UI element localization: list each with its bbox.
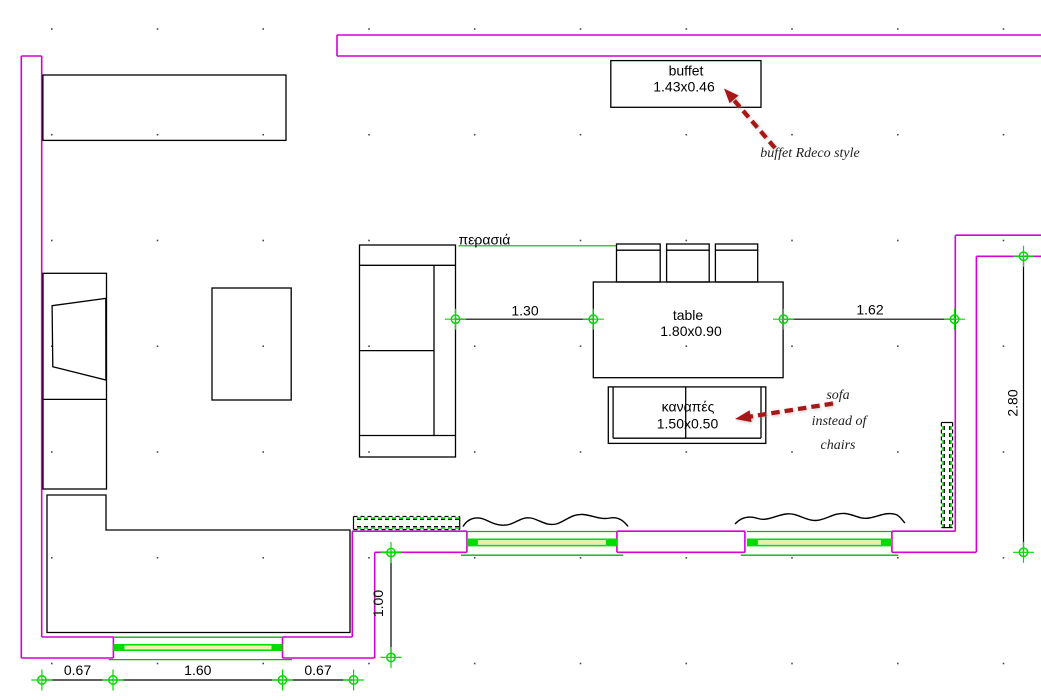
svg-text:1.62: 1.62 <box>856 302 883 318</box>
svg-text:1.30: 1.30 <box>511 303 538 319</box>
svg-text:buffet Rdeco style: buffet Rdeco style <box>760 146 860 161</box>
svg-text:1.00: 1.00 <box>370 590 386 617</box>
svg-text:περασιά: περασιά <box>459 232 511 248</box>
svg-text:0.67: 0.67 <box>64 662 91 678</box>
svg-text:table: table <box>673 307 704 323</box>
svg-text:2.80: 2.80 <box>1005 389 1021 416</box>
svg-text:1.43x0.46: 1.43x0.46 <box>653 79 715 95</box>
svg-text:1.50x0.50: 1.50x0.50 <box>657 416 719 432</box>
svg-text:0.67: 0.67 <box>304 662 331 678</box>
svg-text:1.60: 1.60 <box>184 662 211 678</box>
svg-text:1.80x0.90: 1.80x0.90 <box>660 323 722 339</box>
svg-text:chairs: chairs <box>821 438 857 453</box>
svg-text:καναπές: καναπές <box>662 399 715 415</box>
svg-text:sofa: sofa <box>826 388 849 403</box>
svg-text:instead of: instead of <box>812 414 869 429</box>
svg-text:buffet: buffet <box>669 63 704 79</box>
